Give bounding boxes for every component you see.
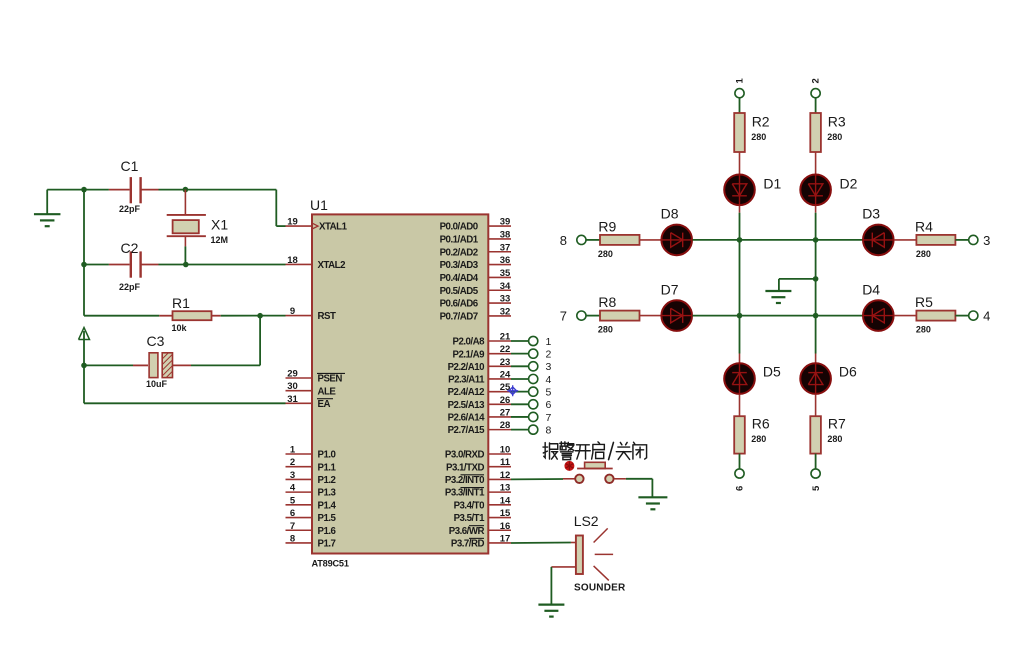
svg-text:P1.3: P1.3 <box>318 488 337 499</box>
svg-text:P1.2: P1.2 <box>318 475 336 486</box>
svg-text:R6: R6 <box>752 416 770 432</box>
svg-text:R1: R1 <box>172 295 190 311</box>
svg-text:R4: R4 <box>915 219 933 235</box>
svg-text:27: 27 <box>500 407 511 418</box>
svg-text:23: 23 <box>500 357 511 368</box>
svg-text:PSEN: PSEN <box>318 374 343 385</box>
svg-text:XTAL2: XTAL2 <box>318 260 346 271</box>
svg-text:10uF: 10uF <box>146 379 168 389</box>
svg-text:LS2: LS2 <box>574 513 599 529</box>
svg-text:6: 6 <box>735 486 746 491</box>
svg-text:D1: D1 <box>763 176 781 192</box>
svg-text:5: 5 <box>546 386 552 398</box>
svg-text:280: 280 <box>827 434 842 444</box>
svg-text:280: 280 <box>598 249 613 259</box>
svg-text:5: 5 <box>290 495 296 506</box>
svg-text:2: 2 <box>290 457 295 468</box>
svg-text:280: 280 <box>827 132 842 142</box>
svg-text:16: 16 <box>500 521 511 532</box>
svg-text:13: 13 <box>500 483 511 494</box>
svg-text:12: 12 <box>500 470 511 481</box>
svg-text:37: 37 <box>500 242 511 253</box>
svg-text:7: 7 <box>560 309 567 324</box>
svg-text:P0.6/AD6: P0.6/AD6 <box>440 299 479 310</box>
svg-text:28: 28 <box>500 420 511 431</box>
svg-text:33: 33 <box>500 294 511 305</box>
svg-text:P3.6/WR: P3.6/WR <box>449 526 485 537</box>
svg-text:P2.3/A11: P2.3/A11 <box>448 375 485 386</box>
svg-text:36: 36 <box>500 255 511 266</box>
svg-text:R5: R5 <box>915 294 933 310</box>
svg-text:D7: D7 <box>661 281 679 297</box>
svg-text:10: 10 <box>500 445 511 456</box>
svg-text:9: 9 <box>290 306 295 317</box>
svg-text:26: 26 <box>500 395 511 406</box>
svg-text:P3.7/RD: P3.7/RD <box>451 539 485 550</box>
svg-text:R2: R2 <box>752 114 770 130</box>
svg-text:35: 35 <box>500 268 511 279</box>
svg-text:R8: R8 <box>598 294 616 310</box>
svg-text:2: 2 <box>546 348 552 360</box>
svg-text:5: 5 <box>811 485 822 491</box>
svg-text:39: 39 <box>500 217 511 228</box>
svg-text:280: 280 <box>751 434 766 444</box>
svg-text:D8: D8 <box>661 206 679 222</box>
svg-text:8: 8 <box>290 533 295 544</box>
svg-text:D4: D4 <box>862 281 880 297</box>
svg-text:P3.2/INT0: P3.2/INT0 <box>445 475 484 486</box>
svg-text:AT89C51: AT89C51 <box>312 559 349 569</box>
svg-text:XTAL1: XTAL1 <box>319 222 348 233</box>
svg-text:34: 34 <box>500 281 511 292</box>
svg-text:P0.5/AD5: P0.5/AD5 <box>440 286 479 297</box>
svg-text:12M: 12M <box>211 235 229 245</box>
svg-text:P2.5/A13: P2.5/A13 <box>448 400 486 411</box>
svg-text:8: 8 <box>560 233 567 248</box>
svg-text:2: 2 <box>811 78 822 83</box>
svg-text:RST: RST <box>318 311 336 322</box>
svg-text:D6: D6 <box>839 364 857 380</box>
svg-text:ALE: ALE <box>318 386 337 397</box>
svg-text:P3.0/RXD: P3.0/RXD <box>445 450 485 461</box>
svg-text:EA: EA <box>318 399 331 410</box>
svg-text:R9: R9 <box>598 219 616 235</box>
svg-text:22pF: 22pF <box>119 282 141 292</box>
svg-text:1: 1 <box>290 445 296 456</box>
svg-text:C1: C1 <box>121 158 139 174</box>
svg-text:3: 3 <box>290 470 295 481</box>
svg-text:U1: U1 <box>310 197 328 213</box>
svg-text:P0.0/AD0: P0.0/AD0 <box>440 222 478 233</box>
svg-text:4: 4 <box>983 309 990 324</box>
svg-text:P3.3/INT1: P3.3/INT1 <box>445 488 485 499</box>
svg-text:P2.2/A10: P2.2/A10 <box>448 362 485 373</box>
svg-text:C2: C2 <box>121 240 139 256</box>
svg-text:P0.7/AD7: P0.7/AD7 <box>440 312 478 323</box>
svg-text:7: 7 <box>546 412 552 424</box>
svg-text:P1.0: P1.0 <box>318 450 336 461</box>
svg-text:P3.5/T1: P3.5/T1 <box>454 513 486 524</box>
svg-text:D5: D5 <box>763 364 781 380</box>
svg-text:3: 3 <box>546 361 552 373</box>
svg-text:8: 8 <box>546 424 552 436</box>
svg-text:P3.4/T0: P3.4/T0 <box>454 500 485 511</box>
svg-text:280: 280 <box>751 132 766 142</box>
svg-text:21: 21 <box>500 332 511 343</box>
svg-text:C3: C3 <box>147 333 165 349</box>
svg-text:P0.2/AD2: P0.2/AD2 <box>440 247 478 258</box>
svg-text:P1.4: P1.4 <box>318 500 337 511</box>
svg-text:P0.1/AD1: P0.1/AD1 <box>440 235 479 246</box>
svg-text:4: 4 <box>290 483 296 494</box>
svg-text:24: 24 <box>500 369 511 380</box>
svg-text:280: 280 <box>598 325 613 335</box>
svg-text:D2: D2 <box>840 176 858 192</box>
svg-text:29: 29 <box>287 369 298 380</box>
svg-text:P0.3/AD3: P0.3/AD3 <box>440 260 479 271</box>
svg-text:P3.1/TXD: P3.1/TXD <box>446 462 484 473</box>
svg-text:280: 280 <box>916 325 931 335</box>
svg-text:18: 18 <box>287 255 298 266</box>
svg-text:R3: R3 <box>828 114 846 130</box>
svg-text:P2.7/A15: P2.7/A15 <box>448 425 486 436</box>
svg-text:10k: 10k <box>172 323 188 333</box>
svg-text:30: 30 <box>287 381 298 392</box>
svg-text:P1.7: P1.7 <box>318 539 336 550</box>
svg-text:D3: D3 <box>862 206 880 222</box>
svg-text:31: 31 <box>287 394 298 405</box>
svg-text:17: 17 <box>500 533 511 544</box>
svg-text:SOUNDER: SOUNDER <box>574 583 626 594</box>
svg-text:6: 6 <box>290 508 295 519</box>
svg-text:32: 32 <box>500 306 511 317</box>
svg-text:X1: X1 <box>211 217 228 233</box>
svg-text:22pF: 22pF <box>119 204 141 214</box>
svg-text:6: 6 <box>546 399 552 411</box>
svg-text:P1.5: P1.5 <box>318 513 337 524</box>
svg-text:P1.6: P1.6 <box>318 526 337 537</box>
svg-text:P1.1: P1.1 <box>318 462 337 473</box>
svg-text:280: 280 <box>916 249 931 259</box>
svg-text:11: 11 <box>500 457 511 468</box>
svg-text:P2.6/A14: P2.6/A14 <box>448 413 486 424</box>
svg-text:19: 19 <box>287 217 298 228</box>
svg-text:P2.1/A9: P2.1/A9 <box>452 349 485 360</box>
svg-text:P2.4/A12: P2.4/A12 <box>448 387 485 398</box>
svg-text:1: 1 <box>546 336 552 348</box>
svg-text:14: 14 <box>500 495 511 506</box>
svg-text:R7: R7 <box>828 416 846 432</box>
svg-text:P0.4/AD4: P0.4/AD4 <box>440 273 479 284</box>
svg-text:22: 22 <box>500 344 511 355</box>
svg-text:7: 7 <box>290 521 295 532</box>
svg-text:P2.0/A8: P2.0/A8 <box>452 337 485 348</box>
svg-text:15: 15 <box>500 508 511 519</box>
svg-text:3: 3 <box>983 233 990 248</box>
svg-text:1: 1 <box>735 78 746 84</box>
svg-text:4: 4 <box>546 374 552 386</box>
svg-text:38: 38 <box>500 229 511 240</box>
